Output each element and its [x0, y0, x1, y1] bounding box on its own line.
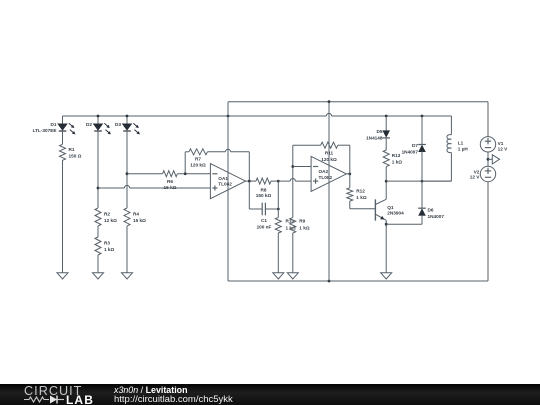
- svg-text:Q1: Q1: [387, 205, 394, 210]
- diode D7: [418, 116, 426, 181]
- wire V2 bottom: [487, 182, 489, 281]
- svg-text:R13: R13: [392, 153, 401, 158]
- wire collector node right: [386, 180, 451, 182]
- node D5 rail: [385, 115, 388, 118]
- label R9: [299, 218, 310, 230]
- label L1: [458, 141, 469, 152]
- ground D3 column: [122, 273, 133, 279]
- svg-text:1N4007: 1N4007: [402, 150, 419, 155]
- resistor R10: [275, 181, 281, 273]
- node R8 out: [277, 180, 280, 183]
- node D7 rail: [421, 115, 424, 118]
- svg-text:1 kΩ: 1 kΩ: [299, 226, 310, 231]
- resistor R13: [383, 150, 389, 181]
- resistor R8: [256, 178, 271, 184]
- resistor R3: [95, 237, 101, 273]
- svg-text:R12: R12: [356, 189, 365, 194]
- net flag: [488, 155, 500, 164]
- wire V1 top: [487, 102, 489, 137]
- node OA1 out: [248, 180, 251, 183]
- diode D6: [386, 181, 426, 224]
- ground R9: [287, 273, 298, 279]
- svg-text:V1: V1: [498, 141, 504, 146]
- wire R6 to OA1 minus: [177, 173, 210, 175]
- svg-text:150 Ω: 150 Ω: [69, 153, 82, 158]
- label R1: [69, 147, 82, 158]
- svg-text:2N3904: 2N3904: [387, 210, 404, 215]
- resistor R11: [321, 142, 338, 148]
- inductor L1: [422, 116, 451, 181]
- node OA2 V+ rail: [328, 100, 331, 103]
- wire OA2 power column: [328, 102, 330, 281]
- label D7: [402, 143, 419, 155]
- wire OA2 out: [346, 173, 349, 175]
- svg-text:R6: R6: [167, 179, 173, 184]
- label OA1: [218, 176, 232, 186]
- wire OA1 power column: [227, 102, 229, 281]
- wire V- bottom rail: [228, 280, 488, 282]
- node D2 top: [97, 115, 100, 118]
- label R3: [104, 241, 115, 253]
- label R10: [286, 218, 297, 230]
- svg-text:TL082: TL082: [218, 182, 232, 187]
- op-amp OA1: [210, 164, 245, 199]
- ground D1 column: [57, 273, 68, 279]
- node OA2 out: [348, 173, 351, 176]
- node D6 D7 tap: [421, 180, 424, 183]
- label V1: [498, 141, 509, 151]
- svg-text:1 kΩ: 1 kΩ: [392, 159, 403, 164]
- resistor R1: [60, 144, 66, 272]
- label D1: [33, 122, 57, 133]
- svg-text:15 kΩ: 15 kΩ: [133, 218, 146, 223]
- svg-text:LTL-307EE: LTL-307EE: [33, 128, 57, 133]
- label R12: [356, 189, 367, 200]
- logo resistor glyph: [24, 397, 49, 402]
- wire OA1 out: [246, 180, 256, 182]
- node OA2 V- rail: [328, 280, 331, 283]
- node D3 tap: [126, 172, 129, 175]
- svg-text:D6: D6: [428, 208, 434, 213]
- svg-text:R9: R9: [299, 218, 305, 223]
- label V2: [470, 169, 481, 179]
- svg-text:1 kΩ: 1 kΩ: [356, 195, 367, 200]
- label R7: [190, 157, 206, 168]
- resistor R2: [95, 208, 101, 237]
- wire R8 to node: [271, 180, 278, 182]
- label OA2: [319, 169, 333, 180]
- svg-text:D1: D1: [51, 122, 57, 127]
- svg-text:R2: R2: [104, 212, 110, 217]
- label D2: [86, 122, 92, 127]
- svg-text:OA2: OA2: [319, 169, 329, 174]
- capacitor C1: [262, 203, 265, 216]
- node Q1 collector: [385, 180, 388, 183]
- source V1: [480, 137, 495, 152]
- resistor R9: [290, 145, 296, 273]
- ground Q1 emitter: [381, 273, 392, 279]
- logo diode glyph: [50, 396, 57, 404]
- label D3: [115, 122, 121, 127]
- svg-text:R3: R3: [104, 241, 110, 246]
- node rail-OA1 V+: [227, 115, 230, 118]
- svg-text:D3: D3: [115, 122, 121, 127]
- label R4: [133, 212, 146, 224]
- svg-text:120 kΩ: 120 kΩ: [190, 162, 206, 167]
- label C1: [257, 218, 272, 230]
- wire to R6: [127, 173, 163, 175]
- resistor R4: [124, 208, 130, 273]
- node OA2 minus tap: [291, 165, 294, 168]
- ground R10: [273, 273, 284, 279]
- wire R7 left lead: [185, 152, 189, 174]
- svg-text:100 nF: 100 nF: [257, 225, 272, 230]
- svg-text:R8: R8: [261, 188, 267, 193]
- wire C1 right: [265, 208, 278, 210]
- wire C1 left: [249, 181, 262, 209]
- svg-text:OA1: OA1: [218, 176, 228, 181]
- wire LED anode rail: [63, 113, 452, 116]
- label R6: [164, 179, 177, 190]
- wire R11 left: [293, 144, 321, 146]
- source V2: [480, 166, 495, 181]
- svg-text:R7: R7: [195, 157, 201, 162]
- svg-text:12 kΩ: 12 kΩ: [104, 218, 117, 223]
- diode D5: [382, 116, 390, 150]
- wire R7 to output: [208, 149, 250, 181]
- wire OA2 minus: [293, 166, 311, 168]
- transistor Q1: [375, 181, 386, 273]
- node V mid: [487, 158, 490, 161]
- resistor R6: [163, 171, 178, 177]
- wire V1 V2 junction: [487, 152, 489, 166]
- node C1-R10: [277, 208, 280, 211]
- svg-text:R4: R4: [133, 212, 139, 217]
- wire R11 right: [338, 145, 350, 174]
- label R8: [256, 188, 272, 199]
- svg-text:150 kΩ: 150 kΩ: [256, 193, 272, 198]
- svg-text:12 V: 12 V: [470, 175, 481, 180]
- node D2 tap: [97, 187, 100, 190]
- ground D2 column: [93, 273, 104, 279]
- svg-text:1N4148: 1N4148: [366, 136, 383, 141]
- wire node to OA2 plus: [278, 179, 311, 182]
- svg-text:D2: D2: [86, 122, 92, 127]
- svg-text:D7: D7: [412, 143, 418, 148]
- label R13: [392, 153, 403, 164]
- svg-text:1 µH: 1 µH: [458, 146, 469, 151]
- svg-text:L1: L1: [458, 141, 464, 146]
- node D3 top: [126, 115, 129, 118]
- LED D1: [58, 116, 76, 144]
- wire D2 to OA1 plus: [98, 185, 210, 188]
- svg-text:R1: R1: [69, 147, 75, 152]
- label Q1: [387, 205, 404, 215]
- wire V+ top rail: [228, 101, 488, 103]
- label D5: [366, 129, 383, 141]
- label R2: [104, 212, 117, 224]
- svg-text:TL082: TL082: [319, 175, 333, 180]
- LED D2: [93, 116, 111, 208]
- label R11: [321, 151, 337, 163]
- resistor R7: [189, 149, 208, 155]
- op-amp OA2: [311, 156, 346, 191]
- label D6: [428, 208, 445, 220]
- LED D3: [122, 116, 140, 208]
- node Q1 emitter: [385, 223, 388, 226]
- node R7 tap: [184, 172, 187, 175]
- svg-text:C1: C1: [261, 218, 267, 223]
- resistor R12: [347, 174, 376, 209]
- CircuitLab logo: [24, 384, 82, 398]
- svg-text:12 V: 12 V: [498, 146, 509, 151]
- svg-text:D5: D5: [377, 129, 383, 134]
- svg-text:1 kΩ: 1 kΩ: [104, 247, 115, 252]
- svg-text:1N4007: 1N4007: [428, 214, 445, 219]
